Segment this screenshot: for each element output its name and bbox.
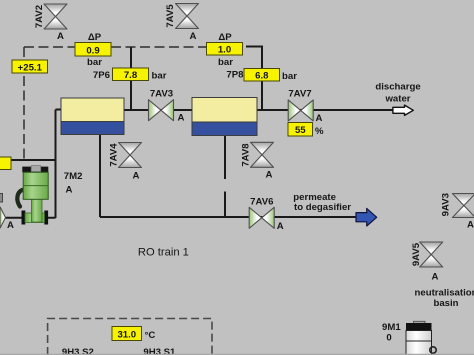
wire: pump suction line [4,217,56,219]
value box 1.0 [207,43,243,56]
svg-text:0: 0 [386,332,391,343]
svg-text:A: A [467,220,474,231]
svg-text:A: A [178,113,185,124]
tank 9M1 [406,321,436,355]
svg-text:7M2: 7M2 [64,171,83,182]
svg-text:A: A [57,31,64,42]
value box 7.8 [113,68,149,81]
svg-text:6.8: 6.8 [255,71,269,82]
svg-text:bar: bar [152,71,167,82]
value box at left edge [0,157,11,170]
svg-text:A: A [190,31,197,42]
wire: vessel1 feed stub [56,109,62,111]
svg-text:A: A [66,184,73,195]
svg-text:°C: °C [145,330,156,341]
wire: vessel1 bottom permeate drop [99,135,101,218]
valve 7AV8 [251,142,274,167]
wire: vessel2 bottom drop lower segment [224,192,226,218]
valve 7AV6 [249,207,274,228]
svg-text:A: A [7,220,14,231]
svg-text:7AV3: 7AV3 [150,89,173,100]
value box 31.0 [112,327,142,341]
svg-text:55: 55 [295,125,306,136]
svg-text:1.0: 1.0 [218,45,231,56]
discharge arrow [393,105,413,115]
valve 9AV5 [420,242,443,267]
wire: main pipe vessel1 to vessel2 [124,109,192,111]
svg-text:9AV3: 9AV3 [441,193,452,216]
svg-text:basin: basin [433,298,458,309]
svg-text:neutralisation: neutralisation [415,288,474,299]
svg-text:7AV2: 7AV2 [34,5,45,28]
svg-text:7AV4: 7AV4 [109,143,120,167]
svg-text:A: A [266,170,273,181]
valve 7AV4 [119,143,142,168]
svg-text:31.0: 31.0 [117,330,136,341]
value box 6.8 [244,69,280,82]
value box 0.9 [75,43,111,57]
inlet valve cone at left edge [0,194,6,229]
svg-text:A: A [432,272,439,283]
svg-text:+25.1: +25.1 [18,62,43,73]
wire: vertical line through 7P6 box [130,47,132,110]
dashed sample box bottom [48,319,212,355]
valve 7AV3 [149,100,174,121]
wire: vertical feed line pump to vessel1 [55,110,57,219]
svg-text:A: A [277,221,284,232]
svg-text:discharge: discharge [375,82,420,93]
svg-text:A: A [133,171,140,182]
value box 55 [288,123,313,137]
svg-text:to degasifier: to degasifier [294,202,351,213]
svg-text:bar: bar [87,57,102,68]
svg-text:9AV5: 9AV5 [411,242,422,266]
svg-text:%: % [315,126,324,137]
wire: solid elbow from 1.0 box to down line [246,47,262,111]
valve 9AV3 [452,194,474,218]
svg-text:water: water [384,94,410,105]
wire: vessel2 bottom drop upper segment [224,136,226,180]
svg-text:bar: bar [282,71,297,82]
svg-text:7P6: 7P6 [93,70,110,81]
membrane vessel 2 [192,98,257,136]
svg-text:7AV8: 7AV8 [241,143,252,167]
svg-text:ΔP: ΔP [88,32,102,43]
svg-text:A: A [316,113,323,124]
svg-text:permeate: permeate [293,192,336,203]
value box +25.1 [12,60,48,73]
wire: dashed instrument line left vertical [23,47,25,159]
wire: permeate line to degasifier arrow [100,216,356,218]
permeate arrow blue [356,208,377,226]
valve 7AV2 [44,4,67,29]
wire: horizontal line to left yellow box [11,159,56,161]
svg-text:7P8: 7P8 [226,70,244,81]
svg-text:7AV7: 7AV7 [288,89,311,100]
svg-text:bar: bar [218,57,233,68]
svg-text:RO train 1: RO train 1 [138,246,189,258]
valve 7AV7 [288,100,313,121]
svg-text:ΔP: ΔP [218,32,232,43]
pump 7M2 [17,166,48,225]
svg-text:0.9: 0.9 [86,46,99,57]
wire: main pipe vessel2 to discharge arrow [257,109,393,111]
wire: dashed instrument line top-left horizontal [24,46,207,48]
svg-text:7AV5: 7AV5 [165,4,176,28]
membrane vessel 1 [61,98,124,135]
valve 7AV5 [176,4,199,29]
svg-text:7AV6: 7AV6 [250,196,273,207]
svg-text:7.8: 7.8 [124,70,138,81]
